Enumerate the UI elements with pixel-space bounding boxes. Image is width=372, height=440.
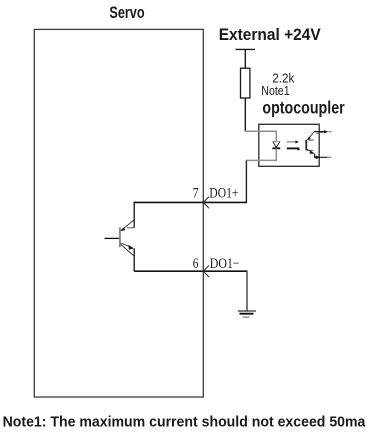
phototransistor emitter arrow: [310, 151, 315, 154]
pin 7 arrow: [203, 197, 209, 209]
svg-text:Note1: The maximum current sho: Note1: The maximum current should not ex…: [3, 414, 367, 430]
svg-text:DO1−: DO1−: [210, 256, 240, 272]
phototransistor collector lead: [314, 131, 326, 133]
optocoupler U1 box: [259, 124, 319, 166]
pin 6 arrow: [203, 265, 209, 277]
transistor Q1 collector arrow (toward base): [120, 227, 125, 231]
LED D1 inside optocoupler: [273, 141, 280, 147]
light arrow lower: [287, 147, 299, 149]
servo box: [34, 29, 203, 397]
wire DO1- to ground: [246, 271, 248, 311]
light arrow upper: [287, 141, 296, 143]
wire: resistor to optocoupler anode node: [244, 98, 246, 131]
transistor Q1 emitter wire: [133, 248, 135, 271]
transistor Q1 emitter upper line: [121, 243, 130, 247]
transistor Q1 emitter lower diagonal: [121, 244, 135, 256]
transistor Q1 base lead: [105, 237, 120, 239]
wire: cathode down to DO1+: [245, 160, 247, 202]
phototransistor emitter diagonal: [307, 149, 314, 153]
phototransistor collector arrow (toward base): [307, 136, 311, 140]
wire: +24V bar to resistor: [244, 49, 246, 68]
phototransistor emitter lead: [315, 154, 327, 157]
svg-text:optocoupler: optocoupler: [262, 98, 345, 118]
wire (gray) cathode exit: [246, 148, 276, 160]
wire DO1+: [134, 201, 247, 203]
svg-text:7: 7: [193, 185, 199, 201]
transistor Q1 emitter arrow: [128, 245, 134, 250]
transistor Q1 collector diagonal: [121, 220, 134, 230]
phototransistor U1 base bar: [305, 140, 307, 151]
svg-text:External +24V: External +24V: [219, 25, 322, 44]
wire DO1-: [134, 270, 247, 272]
wire (gray) anode entry: [245, 131, 276, 141]
power rail bar +24V: [236, 48, 256, 50]
transistor Q1 base bar: [119, 227, 121, 247]
transistor Q1 collector wire: [133, 202, 135, 228]
svg-text:Note1: Note1: [261, 83, 289, 98]
svg-text:Servo: Servo: [109, 3, 144, 22]
svg-text:6: 6: [193, 256, 199, 272]
ground: [238, 310, 256, 312]
svg-text:DO1+: DO1+: [209, 185, 238, 201]
phototransistor collector diagonal: [308, 132, 314, 139]
resistor R1 2.2k: [241, 68, 250, 98]
